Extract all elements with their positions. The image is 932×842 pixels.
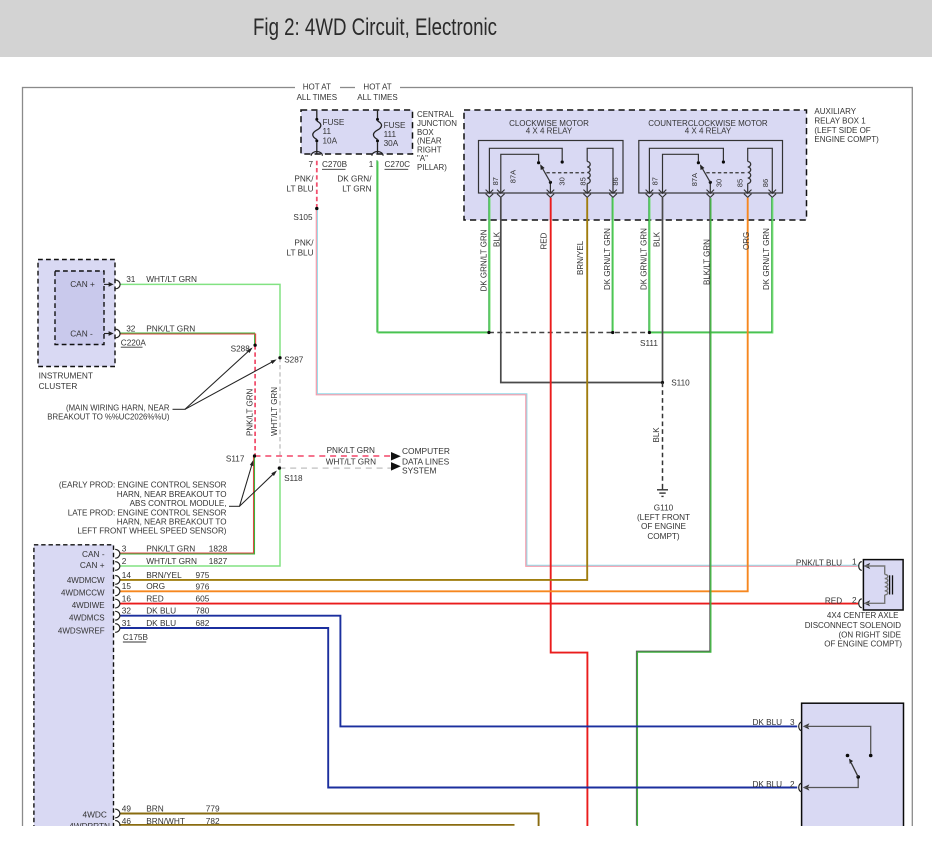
svg-text:CENTRAL: CENTRAL (417, 110, 454, 119)
svg-text:S288: S288 (231, 344, 251, 353)
svg-text:JUNCTION: JUNCTION (417, 119, 457, 128)
svg-text:32: 32 (126, 324, 136, 334)
svg-text:87: 87 (651, 177, 660, 185)
svg-text:7: 7 (308, 160, 313, 169)
svg-text:PNK/: PNK/ (294, 175, 314, 184)
svg-text:C220A: C220A (121, 338, 147, 347)
svg-text:111: 111 (384, 130, 397, 139)
svg-text:PNK/: PNK/ (294, 239, 314, 248)
svg-text:RIGHT: RIGHT (417, 145, 442, 154)
svg-text:86: 86 (761, 179, 770, 187)
svg-text:(LEFT SIDE OF: (LEFT SIDE OF (814, 126, 870, 135)
svg-text:782: 782 (206, 816, 220, 826)
svg-text:ORG: ORG (146, 581, 165, 591)
svg-text:BLK: BLK (653, 231, 662, 247)
svg-text:COMPUTER: COMPUTER (402, 446, 450, 456)
svg-text:87A: 87A (690, 173, 699, 186)
svg-text:4WDIWE: 4WDIWE (72, 601, 105, 610)
svg-text:"A": "A" (417, 154, 428, 163)
svg-text:DK BLU: DK BLU (146, 605, 176, 615)
svg-text:2: 2 (852, 596, 857, 605)
svg-text:BLK: BLK (652, 427, 661, 443)
svg-text:46: 46 (122, 816, 132, 826)
svg-text:30A: 30A (384, 139, 399, 148)
svg-text:PILLAR): PILLAR) (417, 163, 447, 172)
svg-text:PNK/LT GRN: PNK/LT GRN (246, 389, 255, 436)
svg-text:779: 779 (206, 804, 220, 814)
svg-text:WHT/LT GRN: WHT/LT GRN (270, 387, 279, 436)
svg-text:4X4 CENTER AXLE: 4X4 CENTER AXLE (827, 611, 899, 620)
svg-text:AUXILIARY: AUXILIARY (814, 107, 856, 116)
svg-text:C270C: C270C (385, 160, 411, 169)
svg-text:LT BLU: LT BLU (287, 249, 314, 258)
svg-text:C270B: C270B (322, 160, 348, 169)
svg-text:(MAIN WIRING HARN, NEAR: (MAIN WIRING HARN, NEAR (66, 404, 170, 413)
svg-text:FUSE: FUSE (384, 121, 406, 130)
svg-text:INSTRUMENT: INSTRUMENT (39, 371, 93, 381)
svg-text:4WDSWREF: 4WDSWREF (58, 626, 105, 635)
svg-text:DK GRN/: DK GRN/ (337, 175, 372, 184)
svg-text:14: 14 (122, 570, 132, 580)
svg-text:C175B: C175B (123, 633, 149, 642)
svg-text:605: 605 (196, 594, 210, 604)
svg-text:DK BLU: DK BLU (753, 780, 783, 789)
svg-text:11: 11 (323, 127, 332, 136)
svg-text:DK GRN/LT GRN: DK GRN/LT GRN (603, 228, 612, 290)
svg-text:LT BLU: LT BLU (287, 185, 314, 194)
svg-text:16: 16 (122, 594, 132, 604)
svg-text:S118: S118 (284, 474, 303, 483)
svg-text:SYSTEM: SYSTEM (402, 465, 436, 475)
svg-text:BOX: BOX (417, 128, 434, 137)
svg-text:FUSE: FUSE (323, 118, 345, 127)
svg-text:CLUSTER: CLUSTER (39, 381, 78, 391)
svg-text:WHT/LT GRN: WHT/LT GRN (326, 457, 376, 466)
svg-text:BREAKOUT TO %%UC2026%%U): BREAKOUT TO %%UC2026%%U) (47, 413, 170, 422)
svg-text:ORG: ORG (742, 232, 751, 250)
svg-text:(NEAR: (NEAR (417, 137, 442, 146)
svg-text:PNK/LT GRN: PNK/LT GRN (327, 446, 375, 455)
svg-text:BLK/LT GRN: BLK/LT GRN (702, 239, 711, 285)
svg-text:DK GRN/LT GRN: DK GRN/LT GRN (480, 229, 489, 291)
svg-text:(EARLY PROD: ENGINE CONTROL SE: (EARLY PROD: ENGINE CONTROL SENSOR (59, 481, 227, 490)
svg-text:10A: 10A (323, 137, 338, 146)
svg-text:4WDC: 4WDC (82, 809, 106, 819)
svg-text:HARN, NEAR BREAKOUT TO: HARN, NEAR BREAKOUT TO (117, 518, 227, 527)
svg-text:RED: RED (825, 596, 842, 605)
svg-text:BRN/YEL: BRN/YEL (146, 570, 182, 580)
svg-text:S105: S105 (293, 213, 313, 222)
svg-text:LT GRN: LT GRN (342, 185, 371, 194)
svg-text:31: 31 (122, 618, 132, 628)
svg-text:S111: S111 (640, 339, 658, 348)
svg-text:2: 2 (790, 780, 795, 789)
svg-text:1828: 1828 (209, 544, 228, 554)
svg-text:(ON RIGHT SIDE: (ON RIGHT SIDE (838, 630, 901, 639)
svg-text:31: 31 (126, 274, 136, 284)
svg-text:86: 86 (611, 177, 620, 185)
svg-text:49: 49 (122, 804, 132, 814)
svg-text:G110: G110 (654, 503, 674, 512)
svg-text:RED: RED (146, 594, 164, 604)
svg-text:BRN: BRN (146, 804, 164, 814)
svg-text:ENGINE COMPT): ENGINE COMPT) (814, 135, 879, 144)
svg-text:WHT/LT GRN: WHT/LT GRN (146, 274, 197, 284)
svg-text:COMPT): COMPT) (647, 532, 680, 541)
svg-text:(LEFT FRONT: (LEFT FRONT (637, 513, 690, 522)
svg-text:15: 15 (122, 581, 132, 591)
svg-text:CAN +: CAN + (80, 560, 105, 570)
svg-text:780: 780 (196, 606, 210, 616)
svg-text:HOT AT: HOT AT (363, 83, 391, 92)
svg-text:4 X 4 RELAY: 4 X 4 RELAY (526, 126, 573, 135)
svg-text:CAN -: CAN - (82, 549, 105, 559)
svg-text:87: 87 (491, 177, 500, 185)
svg-text:HARN, NEAR BREAKOUT TO: HARN, NEAR BREAKOUT TO (117, 490, 227, 499)
svg-text:4WDMCS: 4WDMCS (69, 614, 105, 623)
svg-text:DK BLU: DK BLU (146, 618, 176, 628)
svg-text:3: 3 (122, 544, 127, 554)
svg-text:975: 975 (196, 570, 210, 580)
svg-text:LEFT FRONT WHEEL SPEED SENSOR): LEFT FRONT WHEEL SPEED SENSOR) (77, 527, 226, 536)
svg-text:WHT/LT GRN: WHT/LT GRN (146, 556, 197, 566)
svg-text:DK GRN/LT GRN: DK GRN/LT GRN (640, 228, 649, 290)
svg-text:HOT AT: HOT AT (303, 83, 331, 92)
svg-text:87A: 87A (508, 170, 517, 183)
svg-text:85: 85 (579, 177, 588, 185)
svg-text:4WDMCCW: 4WDMCCW (61, 589, 105, 598)
svg-text:S110: S110 (671, 379, 690, 388)
svg-text:BRN/YEL: BRN/YEL (576, 240, 585, 275)
svg-text:CAN -: CAN - (70, 329, 93, 339)
svg-text:976: 976 (196, 581, 210, 591)
svg-text:DISCONNECT SOLENOID: DISCONNECT SOLENOID (805, 621, 902, 630)
svg-text:S287: S287 (284, 356, 304, 365)
svg-text:CAN +: CAN + (70, 279, 95, 289)
svg-text:1827: 1827 (209, 556, 228, 566)
svg-text:PNK/LT GRN: PNK/LT GRN (146, 544, 195, 554)
svg-text:85: 85 (735, 179, 744, 187)
svg-text:3: 3 (790, 718, 795, 727)
svg-text:S117: S117 (226, 455, 245, 464)
svg-text:4 X 4 RELAY: 4 X 4 RELAY (685, 126, 732, 135)
svg-text:30: 30 (714, 179, 723, 187)
svg-text:ABS CONTROL MODULE,: ABS CONTROL MODULE, (130, 499, 227, 508)
svg-text:RELAY BOX 1: RELAY BOX 1 (814, 117, 866, 126)
svg-text:LATE PROD: ENGINE CONTROL SENS: LATE PROD: ENGINE CONTROL SENSOR (68, 508, 227, 517)
svg-text:PNK/LT BLU: PNK/LT BLU (796, 558, 842, 567)
svg-text:ALL TIMES: ALL TIMES (357, 93, 397, 102)
svg-text:BLK: BLK (493, 231, 502, 247)
svg-text:DK BLU: DK BLU (753, 718, 783, 727)
svg-text:682: 682 (196, 618, 210, 628)
svg-text:OF ENGINE COMPT): OF ENGINE COMPT) (824, 640, 902, 649)
svg-text:4WDMCW: 4WDMCW (67, 576, 105, 585)
svg-text:PNK/LT GRN: PNK/LT GRN (146, 324, 195, 334)
svg-text:ALL TIMES: ALL TIMES (297, 93, 337, 102)
svg-text:Fig 2: 4WD Circuit, Electronic: Fig 2: 4WD Circuit, Electronic (253, 14, 497, 41)
svg-text:1: 1 (369, 160, 374, 169)
svg-text:DK GRN/LT GRN: DK GRN/LT GRN (762, 228, 771, 290)
svg-text:1: 1 (852, 558, 857, 567)
svg-text:32: 32 (122, 605, 132, 615)
svg-text:OF ENGINE: OF ENGINE (641, 522, 687, 531)
svg-text:30: 30 (557, 177, 566, 185)
svg-text:BRN/WHT: BRN/WHT (146, 816, 185, 826)
svg-text:2: 2 (122, 556, 127, 566)
svg-text:RED: RED (539, 232, 548, 249)
